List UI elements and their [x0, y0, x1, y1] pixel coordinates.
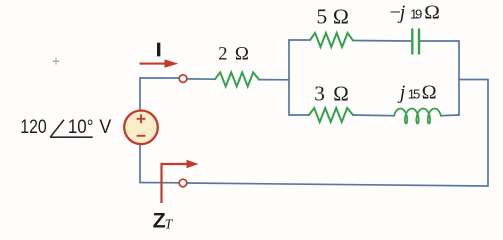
svg-text:V: V	[99, 117, 111, 138]
svg-text:2Ω: 2Ω	[218, 45, 249, 65]
svg-text:10°: 10°	[68, 117, 94, 138]
svg-text:−j19Ω: −j19Ω	[390, 2, 440, 24]
svg-text:3Ω: 3Ω	[314, 82, 349, 106]
svg-text:ZT: ZT	[153, 208, 174, 232]
svg-text:5Ω: 5Ω	[317, 4, 349, 28]
svg-text:120: 120	[20, 117, 46, 138]
svg-text:j15Ω: j15Ω	[397, 82, 437, 104]
svg-text:I: I	[156, 39, 161, 60]
